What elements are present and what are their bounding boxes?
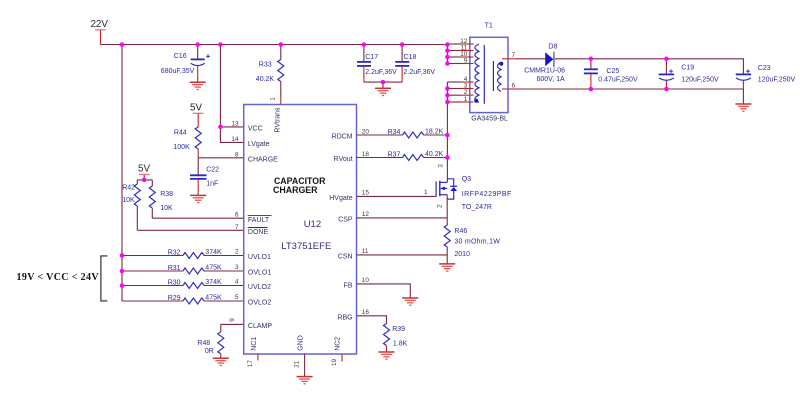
pin 17 NC1 stub xyxy=(257,354,259,361)
svg-text:30 mOhm,1W: 30 mOhm,1W xyxy=(454,239,500,246)
ground below C23 xyxy=(735,104,751,111)
svg-text:LVgate: LVgate xyxy=(248,141,270,148)
wire T1 pin 2 xyxy=(447,94,461,96)
junction xyxy=(445,133,450,138)
svg-text:11: 11 xyxy=(362,248,369,255)
svg-text:R31: R31 xyxy=(168,265,181,272)
wire T1 pin 1 xyxy=(447,101,461,103)
svg-text:R46: R46 xyxy=(454,228,467,235)
svg-text:1: 1 xyxy=(424,189,428,196)
svg-text:18: 18 xyxy=(362,151,370,158)
svg-text:R39: R39 xyxy=(392,326,405,333)
junction xyxy=(445,61,450,66)
svg-text:OVLO2: OVLO2 xyxy=(248,300,271,307)
svg-text:3: 3 xyxy=(437,164,444,168)
junction xyxy=(445,42,450,47)
T1 primary dot xyxy=(474,99,478,103)
wire left vertical to UVLO/OVLO rows xyxy=(121,45,123,302)
svg-text:1.8K: 1.8K xyxy=(393,341,408,348)
wire T1 pin 7 to D8 xyxy=(502,58,517,60)
svg-text:C17: C17 xyxy=(365,54,378,61)
capacitor C16 680uF,35V xyxy=(161,45,210,83)
junction xyxy=(445,155,450,160)
capacitor C17 2.2uF,36V xyxy=(357,45,397,83)
ground below C22 xyxy=(190,195,206,202)
svg-text:2: 2 xyxy=(235,249,239,256)
svg-text:13: 13 xyxy=(231,120,239,127)
resistor R34 18.2K xyxy=(357,129,448,138)
wire T1 upper pin bus xyxy=(446,45,448,64)
svg-text:FB: FB xyxy=(344,283,353,290)
svg-text:19V < VCC < 24V: 19V < VCC < 24V xyxy=(17,272,100,283)
wire output top rail xyxy=(555,59,744,74)
diode D8 CMMR1U-06 xyxy=(524,44,565,84)
wire VCC/LVgate feed vertical xyxy=(220,45,243,143)
svg-text:FAULT: FAULT xyxy=(248,217,270,224)
junction xyxy=(120,269,125,274)
svg-text:374K: 374K xyxy=(205,279,222,286)
svg-text:CSN: CSN xyxy=(338,254,353,261)
svg-text:2.2uF,36V: 2.2uF,36V xyxy=(365,69,397,76)
power 22V xyxy=(90,19,108,44)
svg-text:R33: R33 xyxy=(259,62,272,69)
svg-text:14: 14 xyxy=(231,136,239,143)
resistor R31 475K xyxy=(122,264,244,274)
junction xyxy=(445,100,450,105)
wire HVgate net xyxy=(357,195,436,197)
svg-text:18.2K: 18.2K xyxy=(425,129,444,136)
ground below C16 xyxy=(190,82,206,89)
wire T1 pin 3 xyxy=(447,88,461,90)
svg-text:GA3459-BL: GA3459-BL xyxy=(471,115,508,122)
svg-text:5V: 5V xyxy=(138,163,150,174)
svg-text:3: 3 xyxy=(235,264,239,271)
wire T1 pin 10 xyxy=(447,56,461,58)
junction xyxy=(120,42,125,47)
svg-text:OVLO1: OVLO1 xyxy=(248,270,271,277)
svg-text:C25: C25 xyxy=(606,68,619,75)
svg-text:U12: U12 xyxy=(304,219,321,230)
svg-text:R38: R38 xyxy=(160,191,173,198)
svg-text:6: 6 xyxy=(235,212,239,219)
capacitor C19 120uF,250V xyxy=(659,59,719,89)
svg-text:4: 4 xyxy=(235,279,239,286)
junction xyxy=(120,253,125,258)
resistor R29 475K xyxy=(122,294,244,304)
T1 secondary dot xyxy=(499,62,503,66)
svg-text:VCC: VCC xyxy=(248,126,263,133)
junction xyxy=(195,42,200,47)
ground below R39 xyxy=(379,352,395,359)
svg-text:R29: R29 xyxy=(168,295,181,302)
wire FAULT net xyxy=(152,217,243,219)
junction xyxy=(664,57,669,62)
svg-text:HVgate: HVgate xyxy=(329,195,352,202)
svg-text:C18: C18 xyxy=(404,54,417,61)
capacitor C18 2.2uF,36V xyxy=(395,45,435,83)
junction xyxy=(445,93,450,98)
wire top 22V bus xyxy=(101,44,448,46)
svg-text:2: 2 xyxy=(437,204,444,208)
svg-text:RVtrans: RVtrans xyxy=(275,107,282,133)
svg-text:1: 1 xyxy=(270,97,277,101)
wire C23 to ground xyxy=(742,89,744,104)
svg-text:Q3: Q3 xyxy=(462,176,471,183)
wire DONE net xyxy=(137,229,243,231)
power 5V above R44 xyxy=(190,103,203,127)
svg-text:CHARGER: CHARGER xyxy=(273,185,318,195)
svg-text:19: 19 xyxy=(331,358,338,366)
svg-text:C16: C16 xyxy=(174,53,187,60)
svg-text:40.2K: 40.2K xyxy=(256,76,275,83)
resistor R46 30mOhm xyxy=(444,225,500,264)
wire T1 pin 12 xyxy=(447,43,461,45)
op-amp U12 LT3751EFE box xyxy=(244,105,357,355)
svg-text:RDCM: RDCM xyxy=(332,134,353,141)
wire RBG net xyxy=(357,316,387,324)
ground below R48 xyxy=(213,358,229,365)
svg-text:2010: 2010 xyxy=(454,251,470,258)
svg-text:NC2: NC2 xyxy=(335,337,342,351)
resistor R32 374K xyxy=(122,249,244,259)
T1 secondary winding xyxy=(498,62,502,91)
svg-text:20: 20 xyxy=(362,128,370,135)
ground below C17/C18 xyxy=(375,88,391,95)
junction xyxy=(218,42,223,47)
wire CSN net xyxy=(357,254,448,256)
ground below FB xyxy=(402,298,418,305)
junction xyxy=(362,42,367,47)
svg-text:RBG: RBG xyxy=(337,314,352,321)
svg-text:475K: 475K xyxy=(205,265,222,272)
pin 19 NC2 stub xyxy=(341,354,343,362)
T1 core bars xyxy=(483,45,485,104)
resistor R37 40.2K xyxy=(357,151,448,160)
svg-text:CLAMP: CLAMP xyxy=(248,323,272,330)
svg-text:5: 5 xyxy=(235,294,239,301)
svg-text:16: 16 xyxy=(362,309,370,316)
svg-text:21: 21 xyxy=(294,360,301,368)
overline DONE xyxy=(248,227,268,229)
svg-text:D8: D8 xyxy=(548,44,557,51)
svg-text:DONE: DONE xyxy=(248,229,269,236)
wire T1 pin 11 xyxy=(447,50,461,52)
svg-text:R42: R42 xyxy=(122,184,135,191)
bracket xyxy=(101,256,107,301)
svg-text:10K: 10K xyxy=(122,197,135,204)
svg-text:120uF,250V: 120uF,250V xyxy=(681,76,719,83)
svg-text:374K: 374K xyxy=(205,249,222,256)
junction xyxy=(589,87,594,92)
wire T1 pin 4 xyxy=(447,81,461,83)
junction xyxy=(445,86,450,91)
junction xyxy=(120,283,125,288)
resistor R38 10K xyxy=(149,186,173,218)
resistor R44 100K xyxy=(173,127,201,158)
svg-text:7: 7 xyxy=(512,52,516,59)
svg-text:CHARGE: CHARGE xyxy=(248,156,278,163)
svg-text:C23: C23 xyxy=(758,65,771,72)
svg-text:GND: GND xyxy=(298,335,305,351)
ground below R46 xyxy=(439,264,455,271)
svg-text:7: 7 xyxy=(235,224,239,231)
wire T1 pin 6 output bottom rail xyxy=(502,88,517,90)
junction xyxy=(218,125,223,129)
svg-text:R34: R34 xyxy=(388,129,401,136)
svg-text:15: 15 xyxy=(362,190,370,197)
svg-text:C22: C22 xyxy=(206,166,219,173)
svg-text:0.47uF,250V: 0.47uF,250V xyxy=(598,76,638,83)
resistor R33 40.2K xyxy=(256,45,284,105)
transformer T1 GA3459-BL xyxy=(470,22,508,122)
label CAPACITOR CHARGER xyxy=(273,176,326,195)
svg-text:1nF: 1nF xyxy=(206,181,218,188)
junction xyxy=(381,80,386,85)
svg-text:17: 17 xyxy=(247,360,254,368)
svg-text:0R: 0R xyxy=(205,348,214,355)
capacitor C25 0.47uF,250V xyxy=(584,59,638,89)
wire Q3 source to R46 xyxy=(446,195,448,225)
svg-text:R30: R30 xyxy=(168,280,181,287)
pin 21 GND stub xyxy=(304,354,306,376)
junction xyxy=(400,42,405,47)
svg-text:9: 9 xyxy=(464,57,468,64)
svg-text:100K: 100K xyxy=(173,144,190,151)
wire FB net xyxy=(357,284,411,298)
svg-text:TO_247R: TO_247R xyxy=(462,204,492,211)
svg-text:2.2uF,36V: 2.2uF,36V xyxy=(404,69,436,76)
power 5V above R42/R38 xyxy=(138,163,150,180)
capacitor C23 120uF,250V xyxy=(736,65,796,89)
svg-text:IRFP4229PBF: IRFP4229PBF xyxy=(462,191,512,198)
svg-text:LT3751EFE: LT3751EFE xyxy=(281,241,331,252)
wire CLAMP net xyxy=(221,324,244,331)
junction xyxy=(142,178,147,183)
svg-text:1: 1 xyxy=(464,96,468,103)
svg-text:22V: 22V xyxy=(90,19,108,30)
wire T1 lower pin bus / Q3 drain net xyxy=(446,82,448,182)
resistor R39 1.8K xyxy=(384,324,408,352)
svg-text:R48: R48 xyxy=(197,340,210,347)
wire C17/C18 bottoms join xyxy=(364,82,402,88)
junction xyxy=(589,57,594,62)
svg-text:NC1: NC1 xyxy=(251,337,258,351)
resistor R42 10K xyxy=(122,184,140,230)
svg-text:40.2K: 40.2K xyxy=(425,151,444,158)
svg-text:UVLO2: UVLO2 xyxy=(248,284,271,291)
svg-text:RVout: RVout xyxy=(334,156,353,163)
wire 5V to R42/R38 tops xyxy=(137,180,152,186)
svg-text:10K: 10K xyxy=(160,205,173,212)
junction xyxy=(445,48,450,53)
svg-text:CSP: CSP xyxy=(338,217,353,224)
svg-text:10: 10 xyxy=(362,277,370,284)
T1 primary winding xyxy=(475,44,479,102)
svg-text:600V, 1A: 600V, 1A xyxy=(537,76,565,83)
wire CHARGE net xyxy=(198,157,244,159)
svg-text:680uF,35V: 680uF,35V xyxy=(161,68,195,75)
wire CSP net xyxy=(357,217,448,219)
overline FAULT xyxy=(248,214,272,216)
svg-text:CMMR1U-06: CMMR1U-06 xyxy=(524,68,565,75)
svg-text:6: 6 xyxy=(512,82,516,89)
svg-text:9: 9 xyxy=(229,318,236,322)
ground below pin 21 xyxy=(297,377,313,384)
svg-text:C19: C19 xyxy=(681,65,694,72)
wire T1 pin 9 xyxy=(447,63,461,65)
resistor R48 0R xyxy=(197,332,223,358)
transistor Q3 IRFP4229PBF xyxy=(436,176,512,211)
svg-text:R32: R32 xyxy=(168,250,181,257)
svg-text:R37: R37 xyxy=(388,151,401,158)
svg-text:R44: R44 xyxy=(174,130,187,137)
resistor R30 374K xyxy=(122,279,244,289)
junction xyxy=(445,55,450,60)
svg-text:T1: T1 xyxy=(485,22,493,29)
junction xyxy=(279,42,284,47)
svg-text:120uF,250V: 120uF,250V xyxy=(758,76,796,83)
svg-text:475K: 475K xyxy=(205,295,222,302)
capacitor C22 1nF xyxy=(190,158,219,195)
svg-text:UVLO1: UVLO1 xyxy=(248,254,271,261)
junction xyxy=(664,87,669,92)
svg-text:8: 8 xyxy=(235,151,239,158)
svg-text:5V: 5V xyxy=(190,103,202,114)
svg-text:12: 12 xyxy=(362,211,370,218)
